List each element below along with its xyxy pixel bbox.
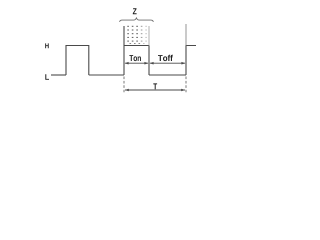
node Ton label xyxy=(129,55,141,61)
wire dashed extension below pulse2 rising edge xyxy=(123,77,125,93)
wire baseline pulse1 to pulse2 xyxy=(89,74,124,76)
wire baseline start to pulse1 xyxy=(51,74,66,76)
node Z overbrace xyxy=(120,18,154,22)
wire pulse2 right edge with Z-region extension xyxy=(148,46,150,76)
node Z label xyxy=(133,8,137,14)
node L label xyxy=(45,74,49,80)
wire pulse2 left edge with Z-region extension xyxy=(123,26,125,75)
node Toff dimension arrow xyxy=(150,62,186,65)
node T label xyxy=(153,83,157,89)
node Ton dimension arrow xyxy=(125,62,149,65)
wire pulse3 Z-region extension line xyxy=(185,24,187,46)
wire pulse1 xyxy=(66,46,89,76)
wire baseline pulse2 to pulse3 xyxy=(149,74,186,76)
node Z halftone dots xyxy=(127,26,147,44)
node H label xyxy=(45,43,49,48)
wire pulse2 top xyxy=(124,45,149,47)
wire dashed extension below pulse3 rising edge xyxy=(185,77,187,93)
node Toff label xyxy=(158,55,173,61)
node T dimension arrow xyxy=(125,89,186,92)
wire pulse3 rising edge xyxy=(186,46,196,76)
